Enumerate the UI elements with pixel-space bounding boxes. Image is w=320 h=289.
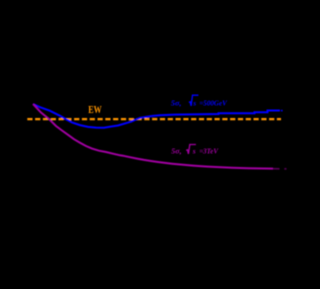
svg-text:=500GeV: =500GeV	[199, 98, 227, 107]
svg-text:5σ,: 5σ,	[171, 146, 181, 155]
svg-text:5σ,: 5σ,	[171, 98, 182, 107]
svg-text:=3TeV: =3TeV	[199, 146, 219, 155]
svg-text:EW: EW	[88, 104, 102, 117]
svg-text:s: s	[192, 98, 196, 107]
svg-text:s: s	[192, 146, 196, 155]
